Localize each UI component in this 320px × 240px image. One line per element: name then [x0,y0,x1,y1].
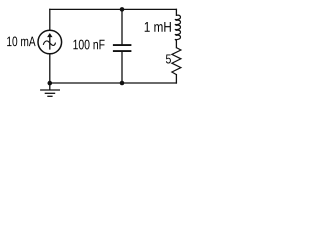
wire left vertical lower [49,54,51,83]
resistor R1 zigzag [172,48,181,75]
wire top horizontal [50,8,177,10]
node junction dot bottom left [48,81,53,86]
label 5 [166,54,171,63]
wire bottom horizontal [50,82,177,84]
wire capacitor top lead [121,9,123,44]
wire between inductor and resistor [175,40,177,47]
label 1 mH [145,22,171,32]
label 10 mA [7,37,35,47]
wire right vertical top lead [175,9,177,15]
wire right vertical bottom lead [175,75,177,83]
current source arrowhead [47,33,52,37]
current source arrow shaft [49,37,51,50]
wire capacitor bottom lead [121,52,123,84]
wire left vertical upper [49,9,51,30]
ground bar 1 [40,89,60,91]
ground bar 2 [45,92,56,94]
current source sine squiggle [43,41,55,46]
inductor L1 coil [175,15,180,40]
capacitor C1 bottom plate [113,50,131,52]
node junction dot bottom middle [120,81,125,86]
label 100 nF [73,40,104,50]
capacitor C1 top plate [113,44,131,46]
node junction dot top [120,7,125,12]
current source I1 circle [38,30,62,54]
ground bar 3 [47,95,52,97]
ground stem [49,83,51,90]
